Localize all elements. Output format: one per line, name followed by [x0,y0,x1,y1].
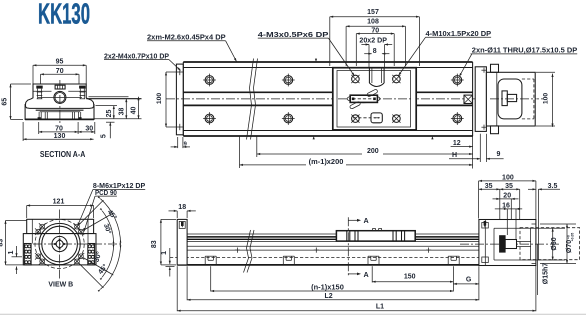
svg-text:L1: L1 [376,304,384,311]
svg-text:Ø60: Ø60 [551,237,558,250]
svg-text:200: 200 [367,148,379,155]
svg-text:VIEW B: VIEW B [48,282,73,289]
svg-text:1: 1 [8,250,15,254]
svg-text:38: 38 [118,108,125,116]
svg-text:Ø15h7: Ø15h7 [543,263,550,285]
svg-text:100: 100 [502,174,514,181]
svg-text:G: G [466,277,472,284]
svg-text:100: 100 [156,93,163,105]
svg-text:83: 83 [0,239,5,247]
svg-text:SECTION A-A: SECTION A-A [40,150,85,159]
svg-text:(n-1)x150: (n-1)x150 [311,285,344,292]
svg-text:20x2 DP: 20x2 DP [359,38,387,45]
svg-text:H: H [452,152,457,159]
svg-text:25: 25 [106,110,113,118]
svg-text:65: 65 [2,98,9,106]
svg-text:9: 9 [496,151,500,158]
svg-text:121: 121 [53,199,65,206]
svg-text:83: 83 [151,240,158,248]
svg-text:L2: L2 [325,293,333,300]
svg-text:150: 150 [404,274,416,281]
svg-text:(m-1)x200: (m-1)x200 [309,159,344,166]
svg-text:12: 12 [453,140,461,147]
svg-text:157: 157 [367,9,379,16]
svg-text:KK130: KK130 [38,0,90,31]
svg-text:8: 8 [373,48,377,55]
svg-text:70: 70 [56,68,64,75]
svg-text:1: 1 [161,251,168,255]
svg-text:5: 5 [100,134,107,138]
svg-text:+0.05: +0.05 [571,233,575,242]
svg-text:20: 20 [503,193,511,200]
svg-text:16: 16 [502,203,510,210]
svg-text:A: A [364,270,369,279]
svg-text:A: A [364,216,369,225]
svg-text:95: 95 [56,58,64,65]
svg-text:3.5: 3.5 [548,183,558,190]
svg-text:40: 40 [131,107,138,115]
svg-text:100: 100 [543,93,550,105]
svg-text:18: 18 [178,204,186,211]
svg-text:108: 108 [367,19,379,26]
